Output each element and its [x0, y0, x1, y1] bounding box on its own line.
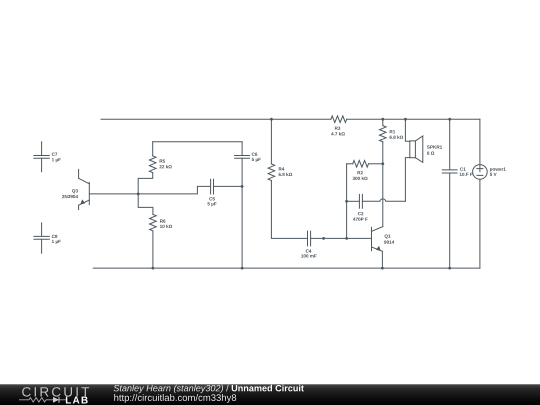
- label power1: [490, 168, 506, 172]
- capacitor C6: [235, 156, 250, 159]
- footer author: [114, 385, 223, 393]
- wire power1 bottom to rail: [479, 179, 481, 268]
- resistor R3: [331, 116, 347, 123]
- wire C6 top stub: [241, 142, 243, 156]
- label R2: [357, 171, 362, 174]
- logo LAB: [66, 397, 88, 404]
- footer title: [232, 385, 304, 392]
- label R4 value: [279, 173, 293, 176]
- transistor Q3 emitter stub: [78, 205, 80, 209]
- wire R1 bottom to Q1 collector: [382, 142, 384, 227]
- label C1 value: [460, 173, 473, 176]
- resistor R6: [150, 214, 157, 231]
- wire C2 left: [347, 200, 360, 202]
- label SPKR1 value: [427, 151, 434, 154]
- label C4: [306, 249, 312, 252]
- node dot base junction: [137, 193, 140, 196]
- label SPKR1: [427, 145, 442, 148]
- transistor Q1 emitter diagonal: [372, 247, 383, 251]
- wire right drop to power1: [479, 119, 481, 165]
- wire C2 right with hop: [362, 199, 405, 201]
- label C6 value: [252, 158, 261, 162]
- footer bar: [0, 384, 540, 405]
- label C6: [252, 153, 258, 156]
- label C2 value: [353, 218, 368, 221]
- label C7 value: [52, 158, 61, 162]
- resistor R5: [149, 156, 156, 173]
- wire Q3 base to C5 step: [89, 186, 210, 194]
- wire C5 right: [214, 185, 243, 187]
- wire Q1 emitter to rail: [381, 251, 383, 268]
- node dot C1 top: [448, 118, 451, 121]
- label R5 value: [159, 165, 171, 168]
- label Q3 value: [62, 195, 78, 198]
- transistor Q3 collector diagonal: [79, 178, 90, 184]
- transistor Q1 collector diagonal: [372, 227, 383, 232]
- label C5: [209, 197, 215, 200]
- label Q1: [385, 234, 391, 238]
- label Q1 value: [384, 240, 394, 243]
- speaker SPKR1: [410, 141, 416, 158]
- wire C4 right to Q1 base: [311, 237, 372, 239]
- node dot C1 bottom: [448, 267, 451, 270]
- label R6: [160, 219, 165, 222]
- label R2 value: [353, 177, 368, 180]
- capacitor C7: [34, 142, 49, 172]
- capacitor C2: [359, 194, 362, 208]
- node dot R4 top: [270, 118, 273, 121]
- transistor Q1 base bar: [371, 227, 373, 251]
- node dot C2 left: [345, 200, 348, 203]
- node dot base wire mid: [322, 237, 325, 240]
- transistor Q3 collector stub: [78, 169, 80, 178]
- node dot R6 bottom: [152, 267, 155, 270]
- wire R5 top to C6 top: [153, 141, 242, 143]
- label Q3: [72, 189, 78, 193]
- label C1: [460, 167, 466, 170]
- transistor Q3 base bar: [88, 182, 90, 204]
- node dot R2 right: [381, 162, 384, 165]
- label R6 value: [160, 225, 172, 228]
- label C8 value: [52, 240, 61, 244]
- resistor R2: [353, 161, 369, 168]
- wire R1 top stub: [382, 119, 384, 125]
- transistor Q1 emitter arrow: [376, 246, 381, 251]
- label R3: [335, 127, 340, 130]
- wire speaker bottom: [405, 158, 409, 202]
- logo diode: [53, 397, 59, 403]
- capacitor C1: [442, 170, 457, 173]
- capacitor C4: [308, 231, 311, 246]
- wire R6 top jog: [138, 194, 153, 214]
- node dot Q1 emitter: [381, 267, 384, 270]
- wire R2 left: [347, 163, 353, 165]
- node dot R1 top: [381, 118, 384, 121]
- wire C1 bottom to rail: [449, 173, 451, 268]
- wire R2 C2 left vertical: [346, 164, 348, 239]
- footer url: [114, 394, 236, 403]
- label C8: [52, 235, 58, 238]
- capacitor C5: [211, 179, 214, 194]
- footer slash: [226, 385, 229, 392]
- transistor Q3 emitter arrow: [80, 199, 85, 204]
- wire R4 bottom to C4: [271, 181, 307, 239]
- resistor R4: [268, 164, 275, 181]
- wire R2 right: [369, 163, 383, 165]
- label C5 value: [207, 202, 216, 206]
- node dot speaker top: [404, 118, 407, 121]
- node dot C5 right: [241, 185, 244, 188]
- resistor R1: [380, 126, 387, 142]
- wire R4 top stub: [270, 119, 272, 164]
- capacitor C8: [34, 223, 49, 253]
- label R1 value: [390, 135, 404, 138]
- source power1 plus minus: [477, 166, 483, 176]
- wire bottom rail: [93, 267, 480, 269]
- wire R5 top stub: [152, 142, 154, 156]
- label R4: [279, 167, 285, 170]
- wire C1 top stub: [449, 119, 451, 169]
- wire R5 bottom jog: [138, 173, 153, 194]
- label R3 value: [331, 132, 345, 135]
- node dot C6 line bottom: [241, 267, 244, 270]
- label R5: [160, 159, 165, 162]
- label C7: [52, 153, 57, 156]
- label power1 value: [490, 173, 497, 176]
- wire top rail right of R3: [347, 118, 480, 120]
- wire R6 bottom to rail: [152, 231, 154, 268]
- logo CIRCUIT: [22, 387, 89, 397]
- logo wire: [19, 398, 66, 402]
- label C2: [358, 212, 364, 215]
- wire top rail left of R3: [101, 118, 331, 120]
- transistor Q3 emitter diagonal: [79, 200, 90, 205]
- wire C6 bottom to rail: [241, 158, 243, 268]
- label R1: [390, 130, 395, 133]
- node dot R2C2 bottom: [345, 237, 348, 240]
- source power1 circle: [473, 165, 488, 180]
- label C4 value: [301, 254, 316, 257]
- wire speaker top drop: [405, 119, 409, 141]
